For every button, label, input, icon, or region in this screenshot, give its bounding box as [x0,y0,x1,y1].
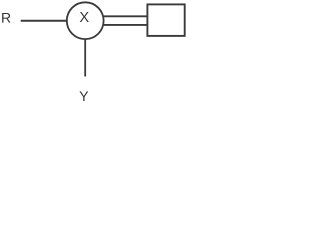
node X (circle) [67,2,104,39]
node Y label [80,91,89,101]
node R label [2,13,10,23]
wire double line X to box (lower) [104,24,148,26]
wire double line X to box (upper) [104,15,148,17]
box node (square) [147,4,184,36]
wire X down to Y [84,39,86,76]
wire R to circle [21,20,67,22]
node X label [80,12,89,22]
